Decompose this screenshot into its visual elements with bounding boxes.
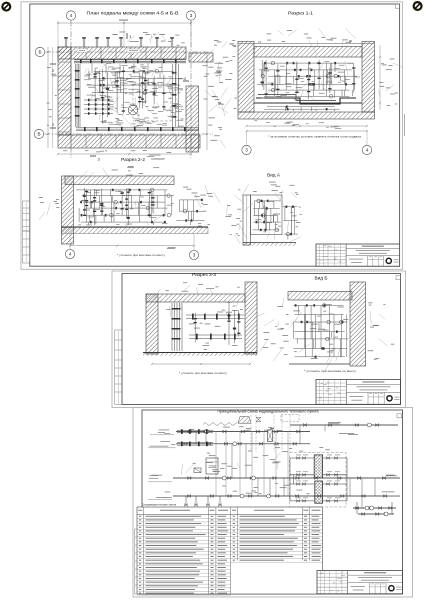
axis circle 3 top: [186, 11, 195, 20]
section 1-1 ceiling slab (hatched): [254, 47, 362, 58]
plan left pipe bundle: [75, 64, 80, 127]
schematic vertical risers: [216, 432, 288, 497]
view A right extension: [282, 206, 298, 240]
schematic expansion tank: [238, 417, 261, 424]
schematic return pipe T2: [176, 442, 310, 446]
section 1-1 annotations right: [378, 59, 402, 106]
svg-text:* уточнить при монтаже по мест: * уточнить при монтаже по месту: [304, 369, 357, 373]
sheet 2 paper: [112, 271, 406, 408]
axis circle 4 top: [66, 11, 75, 20]
svg-text:* уточнить при монтаже по мест: * уточнить при монтаже по месту: [117, 253, 166, 257]
plan left dimension line: [47, 47, 53, 148]
section 1-1 heavy pipe run: [256, 95, 356, 105]
plan section cut mark 1: [127, 33, 132, 39]
schematic misc annotations: [181, 426, 330, 494]
section 1-1 ceiling line: [238, 43, 374, 45]
section 3-3 upper pipe: [186, 314, 244, 320]
schematic heating return pipe: [173, 494, 400, 498]
view Б annotations left: [264, 298, 288, 361]
axis circle Б: [35, 47, 44, 56]
prohibition stamp top-left: [0, 0, 13, 13]
prohibition stamp top-right: [411, 0, 424, 12]
plan dashed equipment zone: [133, 84, 171, 121]
section 1-1 wall left (hatched): [238, 42, 254, 113]
view Б base line: [289, 363, 350, 365]
section 1-1 wall right (hatched): [362, 42, 375, 113]
schematic HX connection pipes: [290, 455, 347, 503]
view Б piping: [290, 304, 349, 372]
section 1-1 piping: [257, 61, 360, 103]
plan wall left segment joints: [58, 62, 71, 132]
svg-text:Разрез 2-2: Разрез 2-2: [121, 157, 146, 162]
plan bottom pipe bundle: [76, 127, 199, 131]
view A title: [267, 173, 280, 178]
section 1-1 annotations left: [209, 40, 237, 116]
schematic extra branch verticals: [196, 425, 375, 508]
section 2-2 dimension line: [69, 245, 195, 247]
axis line 3 vertical: [190, 21, 192, 158]
plan right-side annotations: [202, 63, 227, 148]
section 3-3 riser pipes: [172, 303, 183, 351]
section 3-3 annotations above: [154, 282, 239, 298]
section 3-3 wall right (hatched): [245, 282, 257, 354]
plan top annotations: [112, 32, 184, 46]
sheet 1 title block: [316, 244, 400, 266]
svg-text:4: 4: [366, 148, 369, 153]
section 2-2 left outside labels: [39, 197, 60, 220]
schematic heat exchanger dashed enclosure: [290, 453, 347, 507]
schematic pipe label T2: [148, 441, 176, 448]
svg-text:В: В: [37, 132, 40, 137]
axis line Б horizontal: [45, 51, 213, 53]
schematic regulator box: [206, 458, 218, 474]
plan roof riser stubs: [64, 37, 174, 47]
view A annotations right: [287, 185, 302, 242]
sheet 1 drawing frame: [30, 4, 400, 266]
section 3-3 vertical pipes: [194, 302, 241, 345]
plan title: [87, 11, 179, 16]
section 1-1 floor channel line: [254, 102, 362, 104]
plan section cut mark 2 lower: [50, 122, 56, 128]
schematic heat exchanger 2: [315, 481, 323, 503]
spec table: [137, 507, 323, 595]
view A floor hatch: [243, 243, 296, 246]
plan right dimension line: [206, 53, 208, 150]
svg-text:План подвала между осями 4-5 и: План подвала между осями 4-5 и Б-В: [87, 11, 179, 16]
svg-text:Вид А: Вид А: [267, 173, 280, 178]
section 1-1 dimension lines: [245, 125, 368, 132]
section 1-1 under-floor labels: [255, 120, 342, 129]
svg-text:Вид Б: Вид Б: [315, 275, 328, 280]
schematic control dashed lines: [251, 415, 299, 453]
section 1-1 floor slab (hatched): [238, 112, 375, 119]
plan wall bottom segment joints: [71, 135, 191, 148]
section 1-1 note: [268, 135, 361, 139]
schematic pipe label T4: [148, 492, 172, 500]
section 2-2 axis circle 3: [189, 250, 198, 259]
plan wall right (hatched): [186, 86, 199, 152]
svg-text:Принципиальная схема индивидуа: Принципиальная схема индивидуального теп…: [218, 409, 319, 413]
schematic small heat exchanger: [268, 430, 273, 442]
svg-text:4: 4: [70, 13, 73, 18]
section 3-3 interior annotations: [166, 302, 243, 350]
plan wall bottom (hatched): [58, 135, 200, 148]
plan top dimension line: [57, 20, 192, 47]
section 2-2 axis circle 4: [65, 249, 74, 258]
section 2-2 side label: [167, 247, 176, 249]
section 1-1 right vertical dimension: [379, 45, 381, 110]
plan top pipe bundle: [74, 59, 186, 74]
plan section cut mark 3 bottom: [90, 156, 101, 162]
schematic bottom right pump cluster: [353, 502, 396, 516]
sheet 1 left margin attribute boxes: [23, 201, 30, 263]
axis line 4 vertical: [70, 21, 72, 158]
schematic title: [218, 409, 319, 413]
section 3-3 floor line: [143, 353, 257, 356]
section 3-3 note: [179, 371, 228, 375]
section 2-2 title: [121, 157, 146, 162]
view Б wall right (hatched): [350, 282, 366, 366]
svg-text:3: 3: [193, 253, 196, 258]
sheet 3 drawing frame: [142, 410, 403, 594]
svg-text:* уточнить при монтаже по мест: * уточнить при монтаже по месту: [179, 371, 228, 375]
section 1-1 vertical pipes: [261, 60, 356, 99]
section 2-2 right annotations: [183, 185, 220, 226]
view Б ceiling slab (hatched): [288, 292, 352, 301]
plan left-side annotations: [47, 67, 57, 125]
section 3-3 title: [192, 272, 217, 277]
section 1-1 annotations above: [258, 28, 356, 54]
schematic top right pipe: [290, 423, 398, 427]
schematic heating supply pipe: [173, 476, 400, 480]
svg-text:Разрез 3-3: Разрез 3-3: [192, 272, 217, 277]
schematic pipe label T1: [150, 430, 174, 435]
schematic mud filter: [194, 468, 201, 473]
section 1-1 below-floor pipes: [264, 106, 340, 112]
plan wall left (hatched): [58, 47, 71, 135]
axis circle В: [34, 129, 43, 138]
sheet 3 left margin attribute boxes: [135, 529, 142, 594]
section 1-1 axis circle 3: [242, 145, 251, 154]
section 1-1 title: [288, 11, 314, 16]
plan wall top segment joints: [71, 47, 176, 59]
svg-text:4: 4: [69, 252, 72, 257]
plan wall top-right (hatched): [189, 53, 213, 62]
section 2-2 piping: [76, 188, 174, 232]
plan pump circle: [128, 105, 138, 115]
sheet 3 paper: [133, 408, 413, 598]
section 2-2 note: [117, 253, 166, 257]
view A wall column: [243, 195, 251, 245]
section 3-3 label above slab: [206, 288, 214, 294]
svg-text:3: 3: [245, 148, 248, 153]
view A annotations top: [242, 182, 284, 205]
view Б title: [315, 275, 328, 280]
spec table caption: [142, 503, 176, 507]
section 1-1 axis circle 4: [362, 145, 371, 154]
view A equipment box: [243, 195, 282, 240]
plan section cut mark 2 upper: [50, 64, 56, 73]
svg-text:* за нулевую отметку условно п: * за нулевую отметку условно принята отм…: [268, 135, 361, 139]
svg-text:3: 3: [190, 13, 193, 18]
svg-text:Спецификация теплового пункта: Спецификация теплового пункта: [142, 503, 176, 507]
schematic right label from GVS: [382, 492, 400, 497]
plan interior annotations: [84, 63, 184, 128]
sheet 1 format note: [403, 114, 406, 136]
sheet 2 left margin attribute boxes: [115, 330, 122, 405]
axis line В horizontal: [44, 133, 213, 135]
section 2-2 floor line: [62, 227, 209, 234]
schematic tank connection zigzag: [203, 423, 237, 426]
schematic pipe label T3: [148, 475, 172, 482]
section 3-3 dimension line: [151, 363, 251, 365]
view A annotations left: [226, 190, 247, 244]
view Б annotations right: [368, 303, 395, 360]
svg-text:Разрез 1-1: Разрез 1-1: [288, 11, 314, 16]
sheet 3 title block: [317, 571, 402, 594]
labels between sections sheet 2: [254, 313, 283, 351]
plan flanged assembly rows: [84, 99, 113, 115]
section 2-2 ceiling slab (hatched): [65, 176, 174, 185]
schematic top right labels: [328, 422, 358, 435]
schematic supply pipe T1: [176, 430, 310, 434]
schematic heat exchanger 1: [314, 455, 322, 478]
section 3-3 lower pipe: [189, 334, 242, 340]
sheet 1 paper: [21, 2, 403, 270]
plan wall top (hatched): [58, 47, 186, 59]
schematic drains below T4: [185, 496, 222, 506]
view Б note: [304, 369, 357, 373]
schematic heat meter cluster: [177, 429, 213, 446]
section 3-3 wall left (hatched): [146, 294, 158, 354]
sheet 2 drawing frame: [122, 274, 401, 405]
section 2-2 wall left (hatched): [62, 176, 74, 244]
plan bottom dimension line: [57, 150, 192, 155]
section 2-2 piping right extension: [176, 199, 204, 225]
section 3-3 ceiling slab (hatched): [146, 294, 245, 302]
plan right riser bundle: [172, 64, 179, 127]
labels beside section 2-2 title: [147, 155, 165, 160]
schematic right label GVS: [386, 475, 397, 476]
section 2-2 vertical pipes: [83, 188, 155, 225]
svg-text:Б: Б: [38, 50, 41, 55]
plan section cut mark 2 right: [183, 76, 189, 81]
sheet 2 title block: [316, 380, 400, 405]
section 2-2 annotations above: [80, 166, 160, 181]
